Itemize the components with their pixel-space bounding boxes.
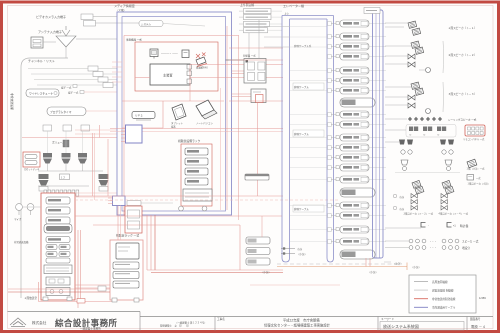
red room boundary [124,35,239,37]
svg-text:ノートパソコン: ノートパソコン [196,121,213,125]
wire [290,137,327,139]
title block divider [139,312,141,331]
red bus wire [22,137,117,139]
attenuator volume [426,68,431,73]
riser junction [328,123,332,126]
svg-text:弱電流電線 制御線: 弱電流電線 制御線 [432,288,454,292]
video input boxes [81,14,93,20]
speaker symbol [39,174,49,179]
svg-text:上り引込線: 上り引込線 [240,3,254,7]
red trunk line 216 [75,215,282,217]
AV rack unit [185,168,208,175]
wire stub [112,81,122,83]
wire stub [112,61,122,63]
distribution box 2x2 [244,59,266,84]
stair horn row [401,160,408,165]
rack feet [43,297,48,301]
trunk cable label 3 [293,205,324,212]
wire stub [112,66,122,68]
microphones [16,204,23,211]
wire [290,215,327,217]
feeder label box [244,15,272,20]
svg-text:シーリングスピーカ 一式: シーリングスピーカ 一式 [448,118,477,122]
svg-text:平成12年度 市庁舎整備: 平成12年度 市庁舎整備 [283,318,320,323]
channel unit box [88,66,98,71]
riser junction [328,204,332,207]
speaker zone pill [340,20,369,27]
speaker symbol [99,174,109,179]
speaker zone pill [340,176,369,183]
laptop icon [196,100,214,116]
riser junction [328,136,332,139]
speaker zone pill [340,111,369,118]
svg-text:キーワード: キーワード [381,317,394,321]
red drop wires [92,133,94,196]
speaker zone pill [340,154,369,161]
wire [290,70,327,72]
rack dark amp pill [44,224,72,233]
svg-text:小計: 小計 [399,207,405,211]
speaker symbol [78,153,87,158]
rack twin pills [46,245,57,250]
wall speaker pairs [409,127,413,132]
title block divider [466,317,468,331]
svg-text:マイク: マイク [14,217,22,221]
rack outgoing wires [75,284,110,286]
svg-text:端子 一式: 端子 一式 [68,91,79,95]
riser junction [328,55,332,58]
svg-text:小計: 小計 [297,247,303,251]
tablet icon [172,104,186,120]
media room outer duct [117,12,232,215]
svg-text:視聴覚設備ラック: 視聴覚設備ラック [178,139,201,143]
terminal pill [246,258,270,265]
bus line [38,170,103,172]
svg-text:工事名: 工事名 [217,317,225,321]
junction box [77,299,85,304]
outlet pill [127,201,141,206]
riser2 right duct [327,16,334,263]
svg-text:メディア情報室: メディア情報室 [114,3,135,8]
orange feeder line [277,266,407,268]
terminal box blue [126,125,143,143]
terminal board red box [125,206,142,233]
svg-text:・・・: ・・・ [429,247,437,250]
svg-text:綜合設計事務所: 綜合設計事務所 [55,318,117,328]
lower rack unit [113,262,139,269]
speaker zone pill [340,67,369,74]
speaker dot row 1 [409,239,413,243]
svg-text:アンテナ入力端子: アンテナ入力端子 [38,29,62,34]
wire [290,179,327,181]
1F speaker pair [408,21,417,28]
wire [290,46,327,48]
system pill [139,21,163,27]
wire [264,26,290,28]
rack twin pills [46,252,57,257]
antenna splitter [56,36,76,47]
wire [290,229,327,231]
svg-text:電設 － 4: 電設 － 4 [471,324,485,329]
feeder label box [244,9,272,14]
svg-text:―――・――: ―――・―― [161,52,178,56]
svg-text:ＵＰＳ: ＵＰＳ [135,115,143,118]
svg-text:市内通話用ケーブル: 市内通話用ケーブル [432,306,456,310]
lower rack [110,240,143,300]
2F speakers [411,41,420,48]
wire [75,129,117,131]
svg-text:システム: システム [141,22,151,26]
company logo [10,318,26,327]
legend box [409,275,476,313]
svg-text:管理建築士 之 印 印: 管理建築士 之 印 印 [160,324,189,328]
riser junction [328,156,332,159]
svg-text:非常放送設備: 非常放送設備 [10,93,14,110]
svg-text:（２階）: （２階） [116,8,126,12]
rack casters [179,206,184,211]
legend row [414,306,428,308]
lower rack unit [113,272,139,279]
lower rack unit [113,281,139,288]
title block divider [377,317,379,331]
AV rack unit [185,158,208,165]
wall speaker group box [406,125,456,138]
AV rack [181,144,212,206]
UPS pill [132,112,155,119]
svg-text:端末: 端末 [171,125,176,129]
red wire bundle to riser [93,224,240,226]
subtotal circles [393,194,397,198]
wireless tuner pill [26,89,59,97]
svg-text:高周波同軸線: 高周波同軸線 [432,280,448,284]
wire [75,133,117,135]
red wire horizontal [122,100,224,102]
drawing name box [380,322,464,331]
rack call box [46,288,70,296]
vertical feeder lines [248,33,250,58]
svg-text:・: ・ [427,225,429,228]
program source red box [23,152,40,167]
svg-text:図面番号: 図面番号 [470,317,481,321]
3F speakers [411,82,420,89]
speaker symbol [62,153,71,158]
group bracket [21,58,68,298]
device icon below [251,89,266,103]
red wires under riser3 [365,258,367,267]
feeder label box [244,21,270,26]
TV tuner box [31,37,43,48]
speaker zone pill [340,238,369,245]
legend row [414,281,428,283]
riser junction [328,240,332,243]
wire [264,36,290,38]
speaker zone pill [340,134,369,141]
panel bus line [38,185,89,187]
svg-text:２階スピーカ（ト－２）: ２階スピーカ（ト－２） [448,53,477,57]
riser junction [328,228,332,231]
lower terminal box blue [113,196,126,206]
svg-text:１階スピーカ（ト－１）: １階スピーカ（ト－１） [448,26,477,30]
speaker symbol [43,153,52,158]
wires media to riser2 [229,47,283,49]
speaker zone pill [340,43,369,50]
corner box icon [467,175,474,181]
floor dashed line [277,263,400,265]
svg-text:主装置: 主装置 [163,73,173,78]
center switch box [60,174,70,180]
svg-text:エレベータ－棟: エレベータ－棟 [283,3,304,8]
rack unit pill [46,237,70,243]
remote panel red box [465,125,485,136]
broadcast rack [41,193,75,300]
svg-text:プログラムタイマ: プログラムタイマ [50,110,72,114]
svg-text:普通紙FAX: 普通紙FAX [196,66,208,70]
speaker tower A [412,180,421,188]
svg-text:一級建築士事務所: 一級建築士事務所 [80,327,101,331]
rack unit pill [46,258,70,263]
riser2 top edges [282,15,334,17]
wire [75,196,117,198]
speaker zone pill [340,53,369,60]
printer icon with red marks [196,57,206,65]
speaker zone pill [340,202,369,209]
rack unit pill [46,197,70,204]
svg-text:・・・: ・・・ [429,241,437,244]
riser junction [328,45,332,48]
ceiling speakers row [408,117,412,121]
wire [290,36,327,38]
riser3 duct [373,10,384,258]
rack amp box [44,265,72,274]
riser junction [328,214,332,217]
terminal pill [246,237,270,244]
svg-text:増設分: 増設分 [462,246,470,250]
svg-text:幹線ケーブル系: 幹線ケーブル系 [294,44,312,48]
speaker label box [43,125,52,131]
svg-text:上り: 上り [284,12,289,16]
speaker dot row 2 [409,246,413,250]
wire [75,192,117,194]
wire [290,167,327,169]
feeder label box [244,28,268,33]
wire [264,46,290,48]
channel unit box [98,77,108,82]
trunk cable label 1 [293,83,324,90]
speaker zone pill [340,77,369,84]
svg-text:１２: １２ [61,176,66,179]
wires below media room [146,215,148,270]
corner speaker icon [467,159,477,168]
riser junction [328,22,332,25]
svg-text:情報文化センター・議場棟建築工事実施設計: 情報文化センター・議場棟建築工事実施設計 [264,323,331,328]
riser2 subtotal rows [281,248,295,250]
svg-text:1/459: 1/459 [479,296,486,300]
svg-text:（小計）: （小計） [393,262,403,266]
main unit box [150,64,190,85]
svg-text:（小計）: （小計） [297,252,307,256]
wire [290,241,327,243]
wire [290,80,327,82]
left drop wire [38,282,40,302]
svg-text:ワイヤレスチューナ: ワイヤレスチューナ [29,92,53,96]
riser junction [328,146,332,149]
speaker zone pill [340,33,369,40]
speaker tower B [442,180,451,188]
media room inner duct [122,17,226,212]
riser junction [328,166,332,169]
trunk cable label 2 [293,130,324,137]
svg-text:放送システム系統図: 放送システム系統図 [383,323,419,329]
speaker zone pill [340,121,369,128]
wire [290,147,327,149]
dark line to distribution [226,59,247,61]
AV rack unit [185,148,208,155]
svg-text:１階放送室: １階放送室 [24,296,37,300]
wire [290,124,327,126]
title block top line right [140,316,493,318]
amp pill wide [340,250,375,259]
riser junction [328,113,332,116]
svg-text:（小計）: （小計） [411,265,421,269]
svg-text:チャンネル・リスト: チャンネル・リスト [28,58,55,63]
wall outlet pill [245,174,269,180]
legend row [414,298,428,300]
wire [290,114,327,116]
terminal drop wires [117,206,119,241]
riser junction [328,35,332,38]
small device icon [182,50,189,58]
rack unit pill [46,207,70,214]
speaker zone pill [340,226,369,233]
wire [290,157,327,159]
rack switch box [46,277,70,285]
svg-text:非常放送設備: 非常放送設備 [14,240,29,244]
riser2 left duct [282,16,290,263]
rack unit pill [46,217,70,224]
svg-text:（小計）: （小計） [261,270,271,274]
AV rack unit [185,178,208,185]
speaker label box [81,125,90,131]
antenna feed lines [76,38,117,40]
riser junction [328,178,332,181]
svg-text:視聴覚ラック 一式: 視聴覚ラック 一式 [116,234,139,238]
wire [290,26,327,28]
riser3 top box [364,8,380,14]
svg-text:株式会社: 株式会社 [32,320,47,325]
riser junction [328,89,332,92]
channel unit box [93,72,103,77]
wire stub [112,71,122,73]
riser junction [328,69,332,72]
svg-text:事務機器 一式: 事務機器 一式 [126,38,142,42]
svg-text:幹線ケーブル: 幹線ケーブル [294,132,309,136]
channel unit box [103,83,113,88]
svg-text:スピーカ 一式: スピーカ 一式 [462,240,479,244]
svg-text:ビデオカメラ入力端子: ビデオカメラ入力端子 [36,14,66,19]
speaker zone pill [340,212,369,219]
amp pill wide [340,188,375,197]
terminal pill [246,248,270,255]
svg-text:端子 一式: 端子 一式 [61,86,72,90]
equipment red box [135,42,218,91]
title block divider [214,317,216,331]
speaker zone pill [340,87,369,94]
svg-text:幹線ケーブル: 幹線ケーブル [294,85,309,89]
clock units [421,223,426,228]
title block top line left [8,311,141,313]
svg-text:分配器 一式: 分配器 一式 [243,54,256,58]
wire [290,90,327,92]
wire stub [112,76,122,78]
switch squares row [44,190,47,196]
speaker label box [63,125,72,131]
svg-text:幹線ケーブル: 幹線ケーブル [294,207,309,211]
svg-text:３階スピーカ（ト－３）: ３階スピーカ（ト－３） [448,92,477,96]
speaker zone pill [340,144,369,151]
legend row [414,289,428,291]
wires into lower rack [8,288,110,290]
monitor icon [150,49,158,57]
wire [290,205,327,207]
red dashed line across [75,195,283,197]
speaker zone pill [340,164,369,171]
program timer pill [47,107,86,116]
svg-text:タブレット: タブレット [171,121,184,125]
svg-text:（小計）: （小計） [368,270,378,274]
svg-text:時計盤: 時計盤 [460,224,469,228]
riser junction [328,79,332,82]
svg-text:非常放送用耐熱電線: 非常放送用耐熱電線 [432,297,456,301]
horn speakers row [399,140,405,145]
svg-text:小計: 小計 [399,195,405,199]
amp pill wide [340,98,375,107]
